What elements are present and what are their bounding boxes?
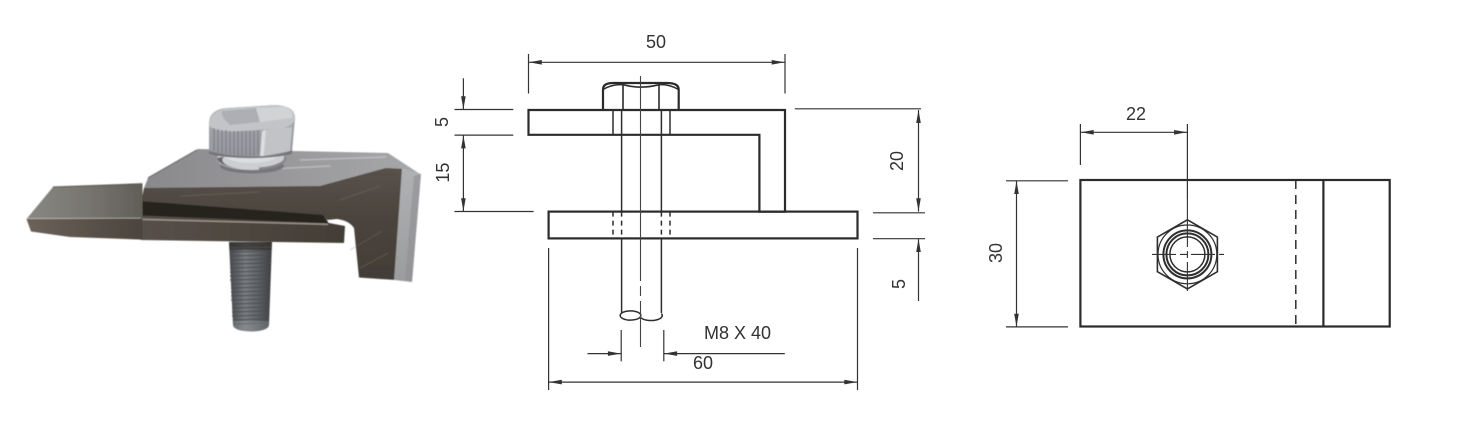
svg-text:15: 15 [433, 163, 453, 183]
svg-text:22: 22 [1126, 104, 1146, 124]
svg-text:5: 5 [432, 117, 452, 127]
svg-text:20: 20 [887, 151, 907, 171]
svg-text:5: 5 [889, 279, 909, 289]
svg-text:30: 30 [986, 243, 1006, 263]
svg-text:60: 60 [693, 353, 713, 373]
svg-text:M8 X 40: M8 X 40 [704, 323, 771, 343]
svg-text:50: 50 [646, 32, 666, 52]
